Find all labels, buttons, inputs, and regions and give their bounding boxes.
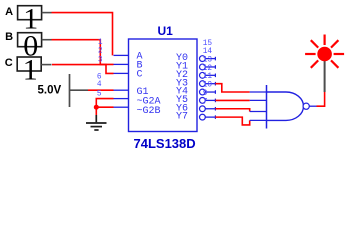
svg-text:2: 2	[98, 48, 103, 56]
pin 5 (~G2B)	[97, 91, 161, 117]
svg-text:13: 13	[203, 57, 213, 65]
svg-text:3: 3	[98, 56, 103, 64]
svg-text:12: 12	[203, 65, 213, 73]
svg-text:9: 9	[203, 90, 208, 98]
svg-text:1: 1	[98, 39, 103, 47]
wire Y6 to gate input 3	[215, 109, 249, 112]
nand gate U2	[250, 85, 317, 129]
wire ground to ~G2A	[96, 99, 113, 115]
svg-text:1: 1	[23, 54, 38, 87]
pin 14 (Y1)	[176, 48, 215, 72]
pin 13 (Y2)	[176, 57, 215, 81]
svg-text:4: 4	[97, 81, 102, 89]
wire B to pin2	[52, 40, 114, 65]
junction	[94, 105, 99, 110]
pin 7 (Y7)	[176, 98, 215, 122]
svg-text:74LS138D: 74LS138D	[134, 136, 196, 151]
svg-text:U1: U1	[158, 24, 174, 38]
wire C to pin3	[52, 65, 114, 74]
pin 12 (Y3)	[176, 65, 215, 89]
svg-text:15: 15	[203, 40, 213, 48]
wire ground to ~G2B	[96, 106, 113, 108]
svg-text:C: C	[5, 57, 13, 69]
pin 3 (C)	[98, 56, 143, 80]
svg-text:C: C	[137, 69, 143, 80]
wire 5.0V to G1	[88, 89, 114, 91]
input switch A	[5, 2, 51, 35]
svg-text:10: 10	[203, 82, 213, 90]
pin 11 (Y4)	[176, 73, 215, 97]
svg-text:7: 7	[203, 98, 208, 106]
pin 2 (B)	[98, 48, 143, 72]
pin 6 (G1)	[97, 74, 149, 98]
pin 10 (Y5)	[176, 82, 215, 106]
svg-text:11: 11	[203, 73, 213, 81]
pin 15 (Y0)	[176, 40, 215, 64]
svg-text:A: A	[5, 6, 13, 18]
ground	[86, 115, 107, 130]
input switch C	[5, 54, 52, 87]
svg-text:~G2B: ~G2B	[137, 106, 161, 117]
op IC U1 74LS138D	[129, 24, 198, 151]
probe X1 (lit)	[305, 35, 344, 93]
svg-text:5: 5	[97, 91, 102, 99]
svg-text:B: B	[5, 31, 13, 43]
wire Y3 to gate input 1	[215, 84, 249, 92]
pin 9 (Y6)	[176, 90, 215, 114]
wire A to pin1	[52, 13, 113, 56]
wire gate output to probe	[317, 92, 325, 106]
svg-text:Y7: Y7	[176, 112, 188, 123]
wire Y7 to gate input 4	[215, 117, 249, 125]
input switch B	[5, 29, 51, 62]
pin 1 (A)	[98, 39, 143, 62]
wire Y5 to gate input 2	[215, 99, 249, 101]
VCC 5.0V source	[38, 74, 89, 107]
svg-text:14: 14	[203, 48, 213, 56]
svg-text:5.0V: 5.0V	[38, 85, 62, 97]
pin 4 (~G2A)	[97, 81, 161, 107]
